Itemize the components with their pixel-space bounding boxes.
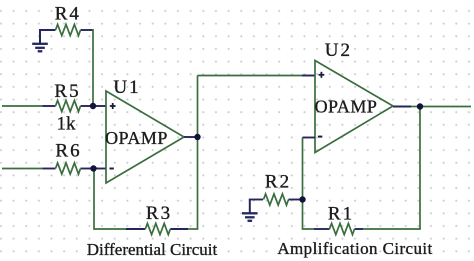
resistor R3 body bbox=[145, 223, 170, 234]
U2 - pin stub bbox=[303, 137, 316, 139]
resistor R2 body bbox=[264, 194, 289, 205]
U2 + pin stub bbox=[302, 75, 315, 77]
ground GND2 (for R2) bbox=[242, 200, 258, 221]
plus marker bbox=[319, 72, 325, 78]
svg-text:OPAMP: OPAMP bbox=[105, 128, 168, 148]
wire node C vertical (up to U2 feed, down to R3) bbox=[197, 76, 199, 230]
node B junction (R6/U1-/R3) bbox=[90, 165, 96, 171]
wire U2 output pin bbox=[393, 106, 411, 108]
svg-text:R6: R6 bbox=[55, 141, 81, 162]
wire node A to U1 pin 3 bbox=[93, 105, 107, 107]
resistor R5 body bbox=[56, 100, 81, 111]
svg-text:Amplification Circuit: Amplification Circuit bbox=[277, 239, 432, 258]
resistor R3 leads bbox=[126, 228, 188, 230]
minus marker bbox=[110, 168, 114, 170]
wire output to right bbox=[420, 106, 471, 108]
node E junction (U2 out) bbox=[417, 103, 423, 109]
svg-text:R3: R3 bbox=[146, 203, 172, 224]
wire R1 to output column bbox=[363, 228, 421, 230]
wire input 2 bbox=[2, 168, 43, 170]
node D junction (R2/U2-/R1) bbox=[299, 196, 305, 202]
svg-text:R4: R4 bbox=[55, 4, 81, 25]
svg-text:OPAMP: OPAMP bbox=[315, 97, 378, 117]
svg-text:1k: 1k bbox=[57, 114, 77, 135]
wire input 1 bbox=[2, 105, 43, 107]
ground GND1 (for R4) bbox=[32, 30, 48, 51]
resistor R6 body bbox=[56, 163, 81, 174]
wire across to U2 + input bbox=[198, 75, 316, 77]
resistor R1 leads bbox=[314, 228, 363, 230]
resistor R1 body bbox=[330, 223, 355, 234]
node C junction (U1 out) bbox=[194, 134, 200, 140]
minus marker bbox=[318, 136, 322, 138]
wire ground to R2 bbox=[249, 199, 263, 201]
svg-text:R1: R1 bbox=[328, 204, 354, 225]
wire node D down to R1 row bbox=[303, 200, 314, 230]
plus marker bbox=[110, 103, 116, 109]
wire U2 - input vertical bbox=[302, 138, 304, 200]
svg-text:R2: R2 bbox=[265, 172, 291, 193]
node A junction (R4/R5/U1+) bbox=[90, 103, 96, 109]
resistor R5 leads bbox=[43, 105, 94, 107]
resistor R6 leads bbox=[43, 168, 94, 170]
wire pin to node E bbox=[411, 106, 420, 108]
svg-text:R5: R5 bbox=[54, 81, 80, 102]
wire R3 to node C column bbox=[188, 228, 198, 230]
wire U1 output pin bbox=[184, 136, 198, 138]
resistor R4 leads bbox=[39, 29, 93, 31]
svg-text:U2: U2 bbox=[325, 40, 352, 61]
resistor R4 body bbox=[56, 24, 81, 35]
op-amp U2 bbox=[315, 40, 393, 153]
wire R3 bottom run bbox=[94, 169, 126, 230]
svg-text:U1: U1 bbox=[113, 77, 140, 98]
wire output column vertical bbox=[419, 107, 421, 230]
op-amp U1 bbox=[105, 77, 184, 183]
wire R4 output down to node A bbox=[92, 29, 94, 106]
svg-text:Differential Circuit: Differential Circuit bbox=[87, 240, 218, 259]
resistor R2 lead bbox=[289, 199, 303, 201]
wire node B to U1 pin 2 bbox=[94, 168, 107, 170]
